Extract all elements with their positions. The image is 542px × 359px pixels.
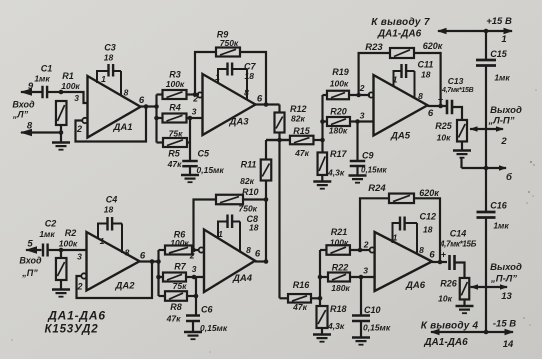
svg-text:„Л-П”: „Л-П”	[487, 116, 514, 127]
svg-text:8: 8	[418, 91, 423, 101]
svg-text:14: 14	[503, 339, 514, 350]
svg-text:8: 8	[27, 121, 33, 132]
svg-text:R23: R23	[365, 42, 383, 53]
svg-text:R7: R7	[174, 262, 186, 272]
svg-text:3: 3	[360, 111, 365, 121]
svg-text:1мк: 1мк	[493, 221, 509, 231]
svg-text:R3: R3	[169, 70, 181, 80]
svg-text:0,15мк: 0,15мк	[361, 166, 387, 175]
svg-text:1: 1	[215, 72, 220, 82]
svg-text:180к: 180к	[331, 283, 350, 293]
svg-text:ДА4: ДА4	[232, 273, 253, 284]
svg-text:„П-Л”: „П-Л”	[490, 274, 517, 285]
svg-text:ДА6: ДА6	[405, 280, 426, 291]
svg-text:750к: 750к	[220, 38, 239, 48]
svg-text:18: 18	[249, 223, 259, 233]
svg-text:R10: R10	[242, 187, 259, 197]
svg-text:-15 В: -15 В	[493, 319, 516, 330]
svg-text:R16: R16	[293, 280, 311, 290]
svg-text:18: 18	[104, 53, 114, 63]
svg-text:ДА2: ДА2	[114, 281, 135, 292]
svg-text:2: 2	[359, 83, 365, 93]
svg-text:C6: C6	[201, 305, 213, 315]
svg-text:R2: R2	[65, 228, 77, 238]
svg-text:100к: 100к	[59, 239, 78, 249]
svg-text:100к: 100к	[61, 81, 80, 91]
svg-text:3: 3	[77, 252, 82, 262]
svg-text:3: 3	[192, 107, 197, 117]
svg-text:0,15мк: 0,15мк	[197, 165, 225, 175]
svg-text:10к: 10к	[437, 133, 451, 143]
svg-text:1: 1	[100, 236, 105, 246]
svg-text:8: 8	[125, 248, 130, 258]
svg-text:ДА1-ДА6: ДА1-ДА6	[423, 337, 468, 348]
svg-text:R24: R24	[368, 183, 386, 194]
svg-text:2: 2	[76, 282, 82, 292]
svg-text:6: 6	[139, 95, 145, 106]
svg-text:47к: 47к	[167, 159, 182, 169]
svg-text:R19: R19	[332, 67, 349, 77]
svg-text:К выводу 4: К выводу 4	[421, 321, 479, 332]
svg-text:„П”: „П”	[21, 268, 38, 278]
svg-text:К153УД2: К153УД2	[45, 324, 99, 336]
svg-text:C2: C2	[45, 219, 57, 229]
svg-text:C9: C9	[362, 151, 374, 161]
svg-text:R11: R11	[241, 160, 257, 170]
svg-text:18: 18	[104, 205, 114, 215]
svg-text:47к: 47к	[294, 148, 309, 158]
svg-text:1: 1	[218, 229, 223, 239]
svg-text:100к: 100к	[330, 238, 349, 248]
svg-text:3: 3	[74, 93, 79, 103]
svg-text:750к: 750к	[239, 204, 258, 214]
svg-text:3: 3	[192, 264, 197, 274]
svg-text:„Л”: „Л”	[12, 110, 29, 120]
svg-text:8: 8	[124, 88, 129, 98]
svg-text:C4: C4	[106, 195, 118, 205]
svg-text:2: 2	[192, 94, 198, 104]
svg-text:3: 3	[363, 266, 368, 276]
svg-text:+15 В: +15 В	[486, 16, 512, 27]
svg-text:R8: R8	[170, 302, 182, 312]
svg-text:8: 8	[419, 245, 424, 255]
svg-text:+: +	[441, 250, 446, 260]
svg-text:100к: 100к	[170, 238, 189, 248]
svg-text:82к: 82к	[291, 114, 305, 124]
svg-text:47к: 47к	[292, 302, 307, 312]
svg-text:0,15мк: 0,15мк	[363, 323, 391, 333]
svg-text:4,3к: 4,3к	[327, 168, 345, 178]
svg-text:C11: C11	[418, 60, 434, 70]
svg-text:R17: R17	[330, 149, 348, 159]
svg-text:R25: R25	[435, 121, 453, 131]
svg-text:R21: R21	[331, 227, 348, 237]
svg-text:2: 2	[189, 251, 195, 261]
svg-text:620к: 620к	[419, 188, 439, 198]
svg-text:R26: R26	[440, 279, 458, 289]
svg-text:2: 2	[76, 124, 82, 134]
svg-text:R5: R5	[168, 149, 180, 159]
svg-text:180к: 180к	[329, 126, 348, 136]
svg-text:C7: C7	[244, 62, 256, 72]
svg-text:2: 2	[363, 240, 369, 250]
svg-text:C12: C12	[420, 212, 437, 222]
svg-text:R22: R22	[332, 263, 349, 273]
svg-text:100к: 100к	[166, 79, 185, 89]
svg-text:R18: R18	[330, 304, 347, 314]
svg-text:Выход: Выход	[490, 262, 522, 273]
svg-text:10к: 10к	[438, 294, 452, 304]
svg-text:ДА1-ДА6: ДА1-ДА6	[377, 29, 422, 40]
svg-text:C5: C5	[198, 149, 210, 159]
svg-text:75к: 75к	[173, 281, 187, 291]
svg-text:К выводу 7: К выводу 7	[371, 17, 430, 28]
svg-text:6: 6	[140, 251, 146, 262]
svg-text:8: 8	[246, 245, 251, 255]
svg-text:C3: C3	[104, 43, 116, 53]
svg-text:47к: 47к	[166, 314, 181, 324]
svg-text:1: 1	[393, 233, 398, 243]
svg-text:620к: 620к	[423, 41, 443, 51]
svg-text:6: 6	[257, 94, 263, 105]
svg-text:Вход: Вход	[12, 100, 35, 110]
svg-text:18: 18	[423, 225, 433, 235]
svg-text:0,15мк: 0,15мк	[200, 323, 228, 333]
svg-text:18: 18	[421, 70, 431, 80]
svg-text:5: 5	[27, 239, 33, 250]
svg-text:1: 1	[501, 34, 506, 45]
svg-text:1: 1	[393, 75, 398, 85]
svg-text:+: +	[438, 95, 443, 105]
svg-text:C14: C14	[450, 229, 467, 239]
svg-text:1мк: 1мк	[494, 73, 510, 83]
svg-text:ДА1: ДА1	[112, 122, 132, 133]
svg-text:C15: C15	[490, 49, 508, 59]
svg-text:1мк: 1мк	[34, 74, 50, 84]
svg-text:R4: R4	[169, 103, 181, 113]
svg-text:ДА1-ДА6: ДА1-ДА6	[47, 309, 106, 323]
svg-text:Выход: Выход	[490, 105, 522, 116]
svg-text:100к: 100к	[330, 79, 349, 89]
svg-text:4,7мк*15В: 4,7мк*15В	[441, 87, 474, 94]
svg-text:4,7мк*15Б: 4,7мк*15Б	[439, 240, 477, 249]
svg-text:6: 6	[429, 250, 435, 261]
svg-text:1мк: 1мк	[39, 229, 55, 239]
svg-text:C13: C13	[448, 76, 464, 86]
svg-text:R20: R20	[330, 107, 347, 117]
svg-text:ДА5: ДА5	[390, 131, 411, 142]
svg-text:9: 9	[28, 81, 34, 92]
svg-text:Вход: Вход	[19, 256, 42, 266]
svg-text:4,3к: 4,3к	[327, 321, 345, 331]
svg-text:6: 6	[428, 108, 434, 119]
svg-text:82к: 82к	[240, 176, 254, 186]
svg-text:1: 1	[101, 74, 106, 84]
svg-text:C16: C16	[490, 201, 508, 211]
svg-text:R1: R1	[62, 71, 74, 81]
svg-text:R15: R15	[293, 126, 311, 136]
svg-text:18: 18	[245, 71, 255, 81]
svg-text:C1: C1	[41, 64, 53, 74]
svg-text:6: 6	[255, 249, 261, 260]
svg-text:ДА3: ДА3	[228, 117, 249, 128]
svg-text:8: 8	[244, 88, 249, 98]
svg-text:13: 13	[501, 291, 512, 302]
svg-text:2: 2	[500, 136, 507, 147]
svg-text:R12: R12	[290, 104, 307, 114]
svg-text:C10: C10	[364, 305, 381, 315]
